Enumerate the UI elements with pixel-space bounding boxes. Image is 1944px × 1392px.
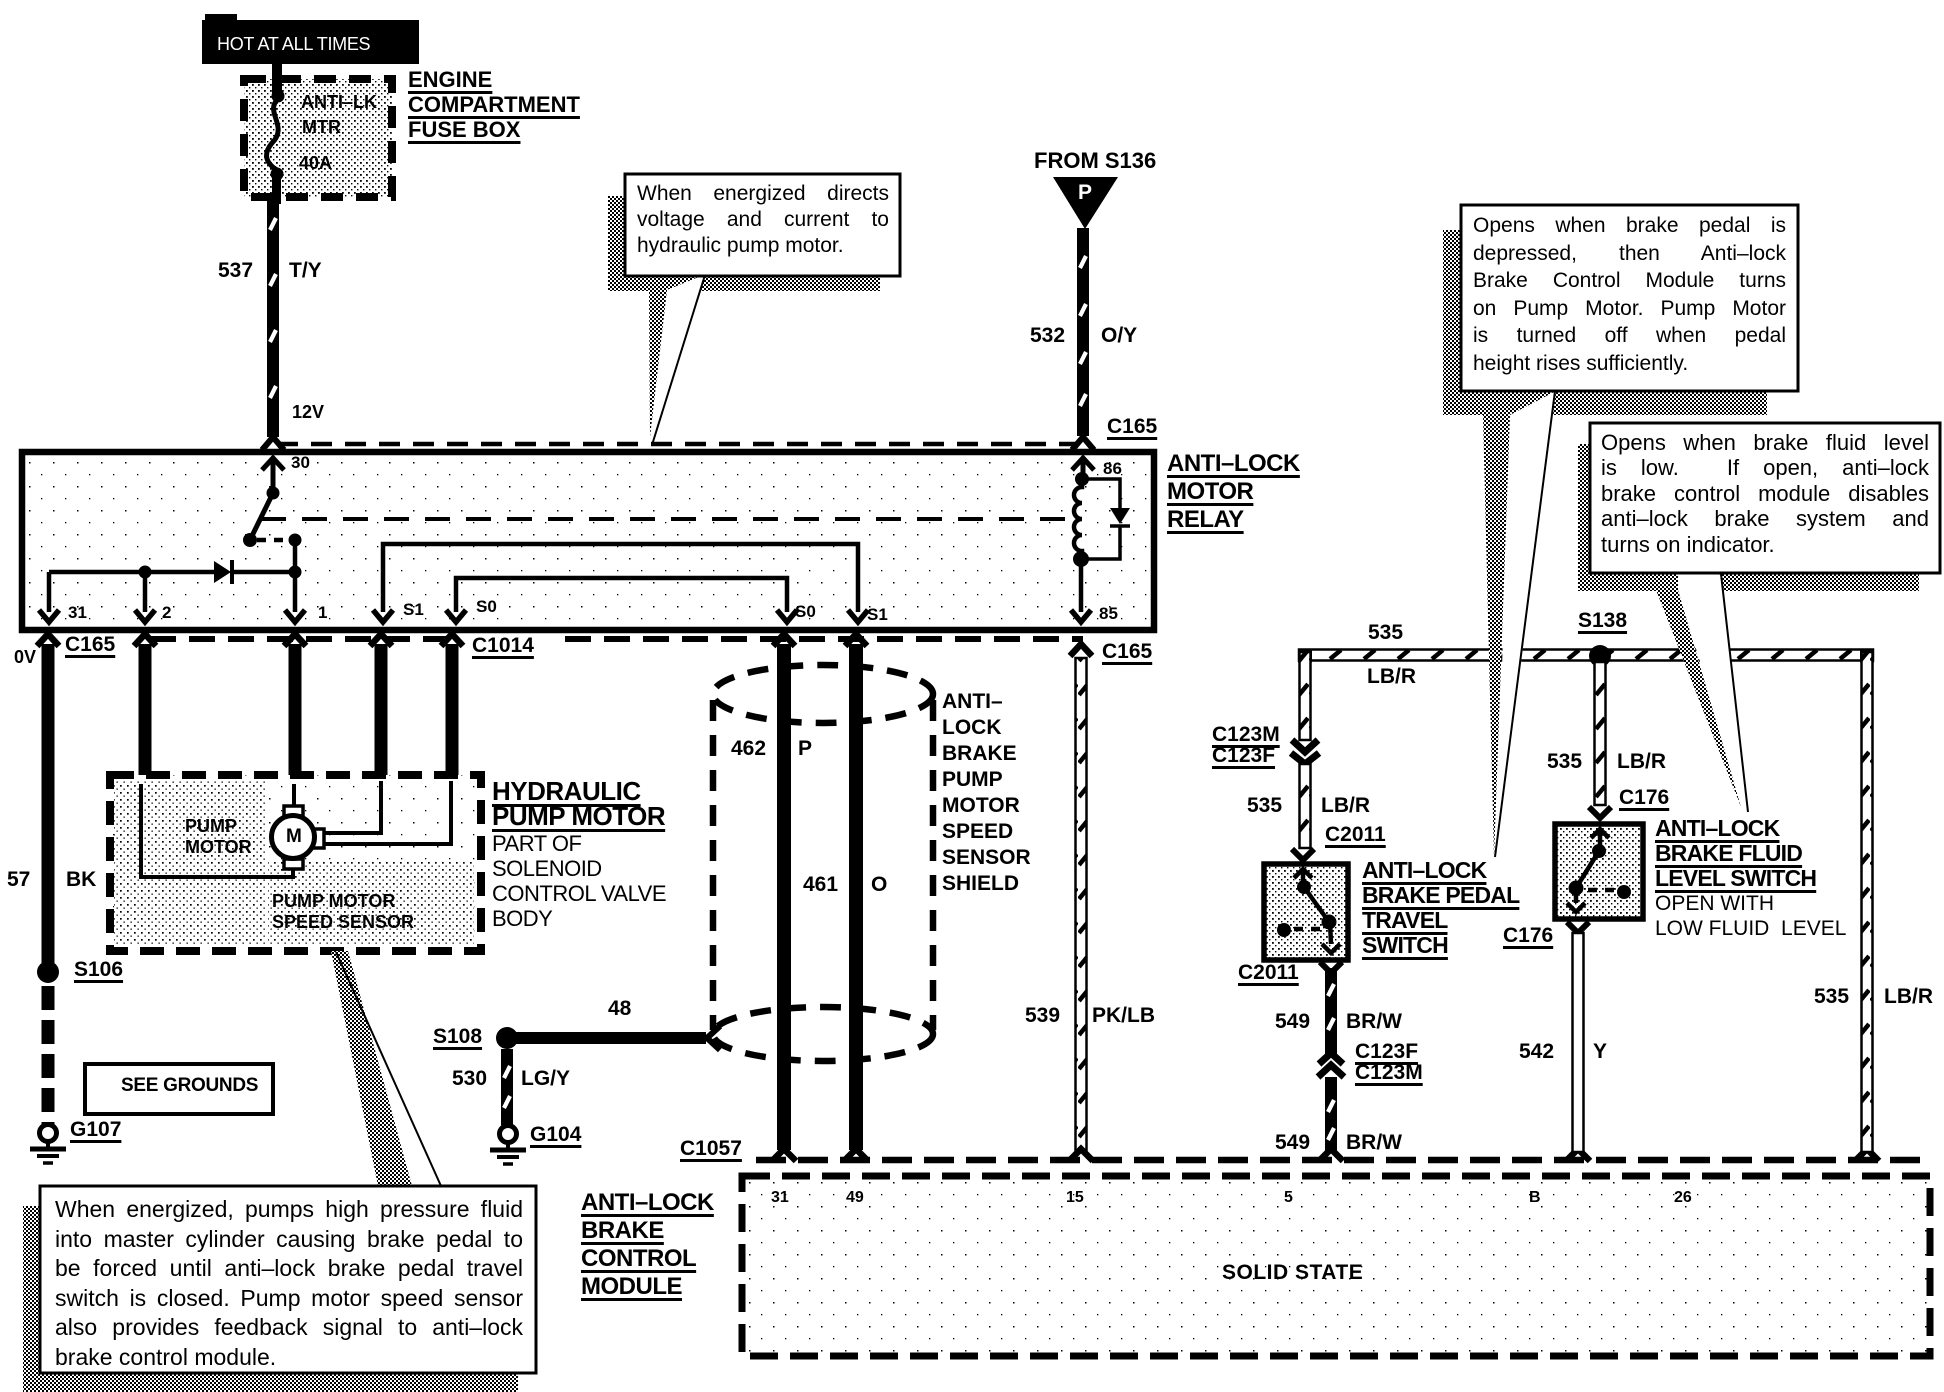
relay pin labels — [291, 454, 310, 471]
callout shadow (when energized pumps) — [23, 1206, 40, 1392]
connector C2011 below switch — [1320, 962, 1342, 973]
thin wire pin2 to motor low brush — [141, 784, 293, 877]
connector C176 below switch — [1567, 922, 1589, 933]
callout 1 text — [637, 181, 889, 259]
banner text — [217, 35, 370, 53]
wire from switch to pin 1 — [293, 540, 298, 612]
callout 2 text — [1473, 212, 1786, 377]
wire 549 BR/W upper — [1325, 968, 1337, 1054]
splice S108 — [496, 1027, 518, 1049]
connector feet at C1057 — [772, 1149, 1879, 1161]
pump motor M — [284, 806, 303, 816]
callout box (when energized directs voltage) — [625, 174, 900, 276]
fluid switch terminal arrow — [1598, 829, 1603, 851]
anti-lock brake pedal travel switch box — [1264, 864, 1348, 960]
FROM S136 — [1034, 150, 1156, 172]
connector end of 532 at C165 — [1072, 437, 1094, 450]
callout box (opens when brake pedal is depressed) — [1461, 205, 1798, 391]
callout leader line — [652, 275, 705, 445]
wire relay S1 to pump motor — [375, 644, 388, 781]
FROM S136 triangle P — [1053, 177, 1118, 229]
connector C123M/C123F pair on 535 — [1292, 740, 1318, 752]
fluid level switch label — [1655, 816, 1816, 891]
wire 537 labels — [218, 260, 253, 281]
wire 542 Y — [1573, 933, 1584, 1152]
callout box (when energized pumps high pressure fluid) — [40, 1186, 536, 1373]
corner cap 535 left — [1298, 649, 1312, 663]
diode (internal) — [214, 561, 231, 583]
ground G107 — [40, 1125, 57, 1142]
banner HOT AT ALL TIMES — [202, 20, 419, 64]
ground G104 — [500, 1126, 517, 1143]
hydraulic pump motor box — [110, 775, 481, 951]
callout 4 text — [55, 1195, 523, 1372]
dashed connector line C165 (top of relay) — [277, 442, 1078, 447]
splice S138 — [1589, 645, 1611, 667]
wire 530 LG/Y — [501, 1049, 513, 1125]
connector forks below relay — [37, 634, 1092, 656]
wire relay pin2 to pump motor — [139, 644, 152, 784]
stub to pin 31 — [47, 572, 52, 612]
fluid switch exit arrow — [1574, 888, 1579, 903]
relay pin 30 arrow — [262, 458, 284, 470]
switch contact gap dashes — [257, 538, 290, 543]
wire relay pin1 to pump motor — [289, 644, 302, 784]
callout leader line — [1495, 391, 1555, 857]
splice S106 — [37, 961, 59, 983]
dashed wire below S106 — [42, 986, 55, 1124]
wire 462 P — [777, 644, 791, 1150]
thin wire S0 to motor — [324, 781, 451, 844]
wire 532 O/Y — [1077, 228, 1089, 436]
stub to pin 2 — [143, 572, 148, 612]
corner cap 535 right — [1860, 649, 1874, 663]
speed sensor shield cylinder — [713, 665, 933, 723]
wire 57 BK — [42, 644, 55, 966]
connector C176 — [1589, 807, 1611, 818]
relay coil — [1081, 462, 1086, 479]
pedal switch terminal arrow — [1301, 869, 1306, 887]
wire 532 labels — [1030, 325, 1065, 346]
S108 / 48 / 530 labels — [433, 1026, 482, 1047]
callout shadow (opens when brake fluid level) — [1578, 444, 1590, 591]
callout 3 text — [1601, 430, 1929, 557]
wire 461 O — [849, 644, 863, 1150]
connector end of 537 at C165 — [262, 437, 284, 450]
anti-lock motor relay box — [22, 452, 1154, 630]
shield wires labels — [731, 738, 766, 759]
thin wire pin1 to motor top brush — [292, 784, 296, 806]
anti-lock brake fluid level switch box — [1555, 824, 1643, 919]
connector line C1057 — [756, 1157, 1930, 1164]
thin wire S1 to motor — [324, 781, 381, 833]
internal bus wire with diode — [49, 570, 214, 575]
wire 549 BR/W lower — [1325, 1077, 1337, 1152]
wire relay S0 to pump motor — [446, 644, 459, 781]
S138 branch labels — [1547, 751, 1582, 772]
fuse labels — [301, 93, 377, 111]
pedal switch fixed contact — [1277, 923, 1291, 937]
relay bottom pin arrows 31 2 1 S1 S0 S0 S1 85 — [39, 610, 1091, 622]
connector C2011 — [1292, 849, 1314, 860]
callout shadow (when energized directs) — [608, 196, 625, 291]
535 horizontal labels — [1368, 622, 1403, 643]
wire 535 LB/R horizontal — [1299, 650, 1873, 661]
callout leader line — [1721, 574, 1748, 812]
pedal switch blade — [1297, 880, 1311, 894]
fuse ANTI-LK MTR 40A — [272, 62, 282, 98]
wire 535 LB/R right branch — [1862, 652, 1873, 1152]
pedal switch exit arrow — [1330, 922, 1331, 944]
wire 535 left branch — [1300, 652, 1311, 740]
wire 48 to shield — [516, 1032, 706, 1044]
fuse box (engine compartment fuse box) — [244, 79, 392, 197]
see grounds — [121, 1076, 258, 1095]
fluid switch blade — [1592, 844, 1606, 858]
anti-lock brake control module box — [742, 1176, 1930, 1356]
connector C123F/C123M pair on 549 — [1319, 1053, 1343, 1064]
wire 539 PK/LB — [1076, 658, 1087, 1150]
wire 537 T/Y — [267, 199, 279, 437]
dashed connector line C165 / C1014 below relay — [150, 636, 452, 642]
callout shadow (opens when brake pedal) — [1443, 230, 1461, 415]
connector row labels — [14, 648, 36, 666]
internal wire S1 loop — [383, 544, 858, 612]
module labels — [680, 1138, 742, 1159]
callout box (opens when brake fluid level is low) — [1590, 423, 1940, 573]
leader from pump motor box to bottom callout — [347, 952, 441, 1186]
internal wire S0 loop — [456, 578, 787, 612]
relay switch blade — [267, 487, 280, 500]
relay actuation dashed line — [261, 517, 1074, 521]
fluid switch fixed contact — [1617, 885, 1631, 899]
relay label — [1167, 450, 1300, 534]
SEE GROUNDS box — [85, 1064, 273, 1114]
wire 57 labels — [7, 869, 30, 890]
pump motor labels — [185, 816, 252, 858]
C123 labels — [1212, 724, 1280, 766]
pedal travel switch label — [1362, 858, 1519, 958]
fork of wire 48 at shield — [707, 1026, 720, 1050]
fuse box label — [408, 67, 580, 142]
clamp diode across coil — [1082, 479, 1120, 559]
wire 535 LB/R to C2011 — [1300, 764, 1311, 848]
wire 535 branch to C176 — [1595, 662, 1606, 805]
